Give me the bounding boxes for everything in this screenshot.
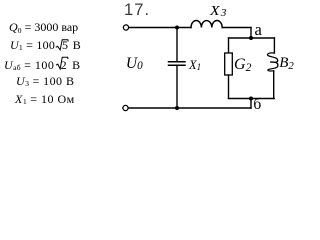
- node a junction dot: [249, 36, 253, 40]
- conductance label G2: [234, 57, 251, 73]
- wire G2 top lead: [228, 38, 230, 53]
- wire parallel bottom bar: [229, 98, 275, 100]
- capacitor X1 plates: [169, 61, 186, 63]
- inductor label X3: [210, 5, 226, 19]
- wire jog down to node a: [250, 28, 252, 39]
- source label U0: [126, 56, 143, 72]
- node b junction dot: [249, 97, 253, 101]
- inductor X3: [191, 21, 222, 28]
- wire bottom rail: [129, 107, 252, 109]
- given data line 5: X1 = 10 Ohm: [15, 93, 75, 105]
- wire parallel top bar: [229, 37, 275, 39]
- wire B2 top lead: [273, 38, 275, 53]
- conductance G2 box: [225, 53, 233, 75]
- wire top left: [129, 27, 191, 29]
- given data line 4: U3 = 100 V: [16, 75, 74, 87]
- radical sign of line 2: [56, 40, 68, 50]
- junction dot top (X1 tap): [175, 26, 179, 30]
- terminal bottom: [123, 105, 128, 110]
- given data line 2: U1 = 100 sqrt5 V: [10, 39, 81, 51]
- wire B2 bottom lead: [273, 71, 275, 99]
- terminal top: [123, 25, 128, 30]
- susceptance label B2: [279, 56, 294, 71]
- capacitor label X1: [189, 59, 201, 72]
- node label a: [255, 22, 262, 39]
- inductive susceptance B2 coil: [268, 53, 278, 71]
- wire X1 branch upper: [176, 28, 178, 62]
- given data line 3: Uab = 100 sqrt2 V: [4, 59, 81, 71]
- wire G2 bottom lead: [228, 75, 230, 99]
- wire node b to bottom rail: [250, 99, 252, 109]
- wire top right: [222, 27, 251, 29]
- problem number 17: [124, 1, 150, 20]
- given data line 1: Q0 = 3000 var: [9, 21, 78, 33]
- node label b: [253, 97, 261, 113]
- wire X1 branch lower: [176, 65, 178, 108]
- junction dot bottom (X1 tap): [175, 106, 179, 110]
- radical sign of line 3: [56, 57, 68, 69]
